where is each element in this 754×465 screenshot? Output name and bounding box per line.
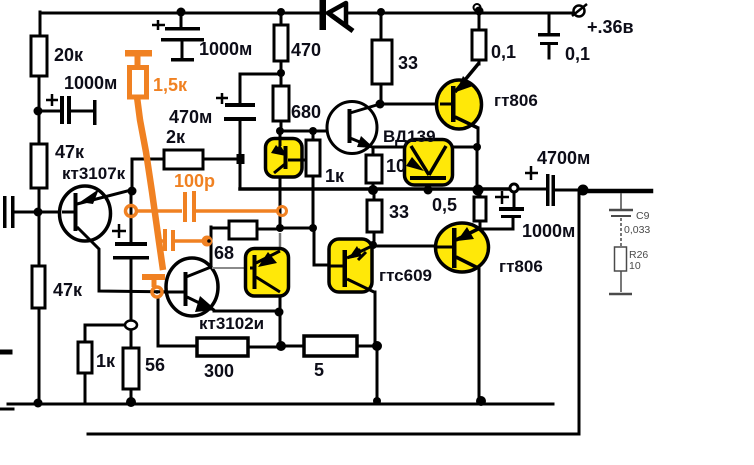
svg-text:33: 33 bbox=[389, 202, 409, 222]
junction rail / R33(1) bbox=[377, 8, 385, 16]
svg-text:гт806: гт806 bbox=[494, 91, 538, 110]
wire bypass cap to end bar bbox=[71, 110, 93, 113]
wire yellow box Q bottom to node C bbox=[279, 177, 282, 228]
wire out cap 1000m top stem bbox=[513, 192, 516, 207]
wire gtc609 top node to 33(2) bbox=[373, 232, 376, 246]
wire R33(1) bottom to node F bbox=[380, 84, 383, 104]
wire gtc609 collector node to gt806(2) base bbox=[377, 245, 437, 248]
resistor 47k (2) bbox=[32, 266, 45, 308]
svg-text:680: 680 bbox=[291, 102, 321, 122]
resistor 68 bbox=[229, 221, 257, 239]
ground rail 1 bbox=[8, 403, 553, 406]
junction R470/R680/cap470m bbox=[277, 69, 285, 77]
svg-text:10: 10 bbox=[386, 156, 406, 176]
plus sign cap 4700m bbox=[525, 166, 538, 180]
svg-text:С9: С9 bbox=[636, 210, 650, 222]
resistor 5 bbox=[304, 336, 357, 356]
wire R0,5 bottom into gt806(2) top bbox=[479, 221, 482, 233]
junction output / R0,5 bbox=[473, 185, 484, 196]
junction output / 4700m right bbox=[578, 185, 589, 196]
capacitor emitter bypass plates bbox=[115, 242, 147, 246]
svg-text:470м: 470м bbox=[169, 107, 212, 127]
wire input cap to base bbox=[14, 211, 74, 214]
svg-text:кт3102и: кт3102и bbox=[199, 314, 264, 333]
svg-text:0,1: 0,1 bbox=[491, 42, 516, 62]
capacitor 4700m plates bbox=[546, 174, 550, 206]
wire cap 4700m to out node bbox=[555, 189, 579, 192]
wire out node to 33(2) top bbox=[373, 190, 376, 200]
wire R5 to node E bbox=[357, 345, 377, 348]
junction square 2k / 470m stem bbox=[237, 154, 245, 164]
svg-text:0,033: 0,033 bbox=[624, 224, 650, 236]
wire node E down to rail bbox=[376, 346, 379, 404]
svg-text:0,5: 0,5 bbox=[432, 195, 457, 215]
svg-text:1,5к: 1,5к bbox=[153, 75, 188, 95]
ring above R0,1 top bbox=[474, 4, 481, 11]
svg-text:+.36в: +.36в bbox=[587, 17, 634, 37]
svg-text:1к: 1к bbox=[96, 351, 116, 371]
junction gtc609 collector node bbox=[369, 241, 377, 249]
wire node to R680 bbox=[280, 74, 283, 86]
junction node C right bbox=[309, 224, 317, 232]
svg-text:10: 10 bbox=[629, 260, 641, 272]
svg-text:1000м: 1000м bbox=[64, 73, 117, 93]
wire 470/680 node to cap 470m bbox=[240, 74, 281, 103]
wire R0,1 bottom to gt806(1) emitter bbox=[478, 60, 481, 64]
svg-text:47к: 47к bbox=[53, 280, 83, 300]
svg-text:56: 56 bbox=[145, 355, 165, 375]
transistor in yellow box Q2 (mid) bbox=[246, 249, 289, 297]
svg-text:47к: 47к bbox=[55, 142, 85, 162]
resistor 33 (1) bbox=[372, 40, 392, 84]
wire 2k left leg down to emitter node bbox=[132, 159, 164, 188]
resistor 1k (1) bbox=[306, 140, 320, 176]
wire node A to bypass cap bbox=[40, 110, 59, 113]
resistor 0,1 bbox=[472, 30, 486, 60]
wire node G down to output node bbox=[476, 147, 479, 190]
wire node C horizontal bbox=[280, 227, 313, 230]
svg-text:гт806: гт806 bbox=[499, 257, 543, 276]
plus sign emitter cap bbox=[112, 224, 126, 238]
junction rail / R56 bbox=[126, 397, 136, 407]
grey base wire kt3102i collector to yellow box Q2 bbox=[212, 267, 250, 269]
svg-text:470: 470 bbox=[291, 40, 321, 60]
wire 47k(2) bottom to ground rail bbox=[38, 308, 41, 404]
wire R1k(2) bottom to rail bbox=[84, 373, 87, 404]
wire node B horizontal to driver base bbox=[280, 130, 348, 133]
orange ring at new base node bbox=[152, 287, 162, 297]
wire node F to gt806(1) base bbox=[381, 103, 451, 106]
resistor 1k (2) bottom-left bbox=[78, 342, 92, 373]
capacitor 470m plates bbox=[225, 103, 255, 107]
load network C9 R26 (faint) bbox=[609, 193, 633, 294]
wire base node down to R300 bbox=[158, 297, 197, 346]
wire node B to R1k(1) bbox=[312, 132, 315, 140]
transistor gt806 (2) yellow circle bbox=[436, 223, 489, 272]
svg-text:0,1: 0,1 bbox=[565, 44, 590, 64]
svg-text:1000м: 1000м bbox=[199, 39, 252, 59]
svg-text:100р: 100р bbox=[174, 171, 215, 191]
junction R300/R5 node D bbox=[276, 341, 286, 351]
wire R68 right to node C bbox=[257, 228, 277, 231]
wire driver emitter node to R10 bbox=[372, 147, 375, 155]
svg-text:1000м: 1000м bbox=[522, 221, 575, 241]
resistor 300 bbox=[197, 338, 248, 356]
wire left drop from rail to R 20k bbox=[39, 12, 42, 38]
wire R300 to node D bbox=[248, 346, 277, 349]
wire R1k(2) top to tap ring bbox=[85, 325, 128, 342]
resistor 470 bbox=[274, 25, 288, 61]
wire output line y=190 bbox=[240, 187, 510, 191]
wire R10 bottom to output line bbox=[372, 183, 375, 190]
wire rail to R470 bbox=[280, 13, 283, 25]
svg-text:20к: 20к bbox=[54, 45, 84, 65]
orange capacitor 100p annotation bbox=[126, 191, 287, 222]
capacitor out 1000m plates bbox=[499, 207, 524, 211]
capacitor input plates bbox=[3, 196, 7, 228]
wire 47k(1) bottom through base node down to 47k(2) bbox=[38, 188, 41, 266]
wire 2k right to 470m stem junction bbox=[203, 158, 240, 161]
transistor gt806 (1) yellow circle bbox=[437, 63, 482, 129]
junction output / VD139 bbox=[424, 186, 433, 195]
diode on rail bbox=[320, 0, 354, 31]
svg-text:ВД139: ВД139 bbox=[383, 127, 436, 146]
wire gt806(1) collector down to node G bbox=[477, 128, 480, 147]
svg-text:4700м: 4700м bbox=[537, 148, 590, 168]
svg-text:68: 68 bbox=[214, 243, 234, 263]
transistor driver VD139 circle bbox=[327, 102, 380, 154]
orange capacitor annotation near 68 bbox=[159, 229, 213, 251]
resistor 20k bbox=[31, 36, 47, 76]
wire cap 0,1(2) bottom stem bbox=[548, 45, 551, 58]
transistor gtc609 yellow box bbox=[329, 239, 374, 292]
junction R5/node E bbox=[372, 341, 382, 351]
wire R680 to node B bbox=[280, 121, 283, 132]
wire cap 0,1(2) top stem bbox=[548, 13, 551, 33]
resistor 0,5 bbox=[474, 197, 486, 221]
wire rail to R0,1 bbox=[478, 13, 481, 30]
svg-text:300: 300 bbox=[204, 361, 234, 381]
junction rail / gt806(2) collector bbox=[476, 396, 486, 406]
wire emitter node down through cap to tap ring bbox=[130, 190, 133, 348]
junction rail / 47k bbox=[34, 399, 43, 408]
junction rail / R470 bbox=[277, 8, 285, 16]
diode VD139 yellow box bbox=[405, 140, 453, 186]
junction emitter node kt3107k bbox=[128, 187, 137, 196]
plus sign cap 1000m top bbox=[152, 20, 165, 30]
transistor kt3107k bbox=[60, 186, 185, 292]
wire kt3102i emitter run bbox=[214, 310, 277, 313]
wire y=147 node run to gt806(1) collector bbox=[373, 146, 477, 149]
junction node B right bbox=[309, 127, 317, 135]
junction node A bbox=[34, 107, 43, 116]
capacitor 0,1(2) plates bbox=[538, 33, 560, 37]
plus sign cap out 1000m bbox=[495, 191, 509, 204]
wire gtc609 emitter down to node E bbox=[374, 292, 377, 346]
wire node D to R5 bbox=[281, 345, 304, 348]
capacitor bypass 1000m plates bbox=[60, 96, 64, 124]
svg-text:33: 33 bbox=[398, 53, 418, 73]
wire output riser to rail 2 bbox=[578, 191, 581, 434]
capacitor 1000m top plates bbox=[165, 27, 200, 31]
wire thick output stub right bbox=[582, 189, 651, 194]
wire output node to R0,5 bbox=[479, 190, 482, 197]
junction kt3102i emitter ring bbox=[275, 308, 284, 317]
svg-text:2к: 2к bbox=[166, 127, 186, 147]
wire cap 1000m inner stem bbox=[181, 41, 184, 58]
wire gt806(2) collector down to rail bbox=[478, 268, 481, 403]
grey stem node C to yellow box Q2 bbox=[279, 233, 282, 249]
wire output ring to cap 4700m bbox=[518, 188, 546, 191]
resistor 10 bbox=[366, 155, 382, 183]
junction node C left bbox=[276, 224, 284, 232]
wire 20k bottom to node A bbox=[38, 76, 41, 146]
orange resistor 1,5k annotation bbox=[125, 50, 165, 287]
wire out cap 1000m bottom leg bbox=[482, 218, 513, 229]
resistor 56 bbox=[123, 348, 139, 389]
transistor in yellow box Q1 (top) bbox=[266, 133, 307, 177]
wire R68 left leg bbox=[211, 227, 229, 267]
terminal +36v ring bbox=[572, 4, 587, 17]
svg-text:1к: 1к bbox=[325, 166, 345, 186]
wire top +36v rail bbox=[40, 12, 573, 15]
resistor 680 bbox=[273, 86, 289, 121]
junction rail / cap 1000m bbox=[177, 8, 186, 17]
junction rail / node E drop bbox=[373, 397, 381, 405]
tap ring on 1k/56 node bbox=[125, 321, 137, 330]
svg-text:5: 5 bbox=[314, 360, 324, 380]
wire rail to R33(1) bbox=[380, 13, 383, 40]
wire kt3102i emitter node down to R300/R5 node bbox=[279, 296, 282, 346]
resistor 33 (2) bbox=[367, 200, 382, 232]
junction node G bbox=[473, 143, 481, 151]
resistor 2k bbox=[164, 150, 203, 169]
output ring before 4700m bbox=[510, 184, 518, 192]
plus sign node A cap bbox=[46, 94, 58, 106]
wire R1k(1) bottom to node C bbox=[312, 176, 315, 228]
wire rail to cap 1000m top bbox=[180, 13, 183, 27]
transistor kt3102i bbox=[160, 258, 218, 316]
svg-text:кт3107к: кт3107к bbox=[62, 164, 126, 183]
wire VD139 box bottom stem bbox=[427, 180, 430, 190]
junction base node kt3107k bbox=[34, 208, 43, 217]
wire R56 bottom to rail bbox=[130, 389, 133, 403]
wire R470 to node bbox=[280, 61, 283, 74]
junction node B left bbox=[276, 127, 284, 135]
junction output / R10 bbox=[368, 185, 378, 195]
resistor 47k (1) bbox=[31, 144, 47, 188]
ground rail 2 (return) bbox=[88, 433, 579, 436]
terminal dash left mid bbox=[0, 350, 10, 355]
plus sign cap 470m bbox=[216, 93, 228, 104]
wire node C down to gtc609 base bbox=[314, 228, 330, 265]
junction rail / R0,1 with ring bbox=[475, 7, 484, 16]
wire cap 470m bottom down to output line corner bbox=[239, 121, 242, 189]
terminal dash bottom left bbox=[0, 408, 13, 411]
svg-text:гтс609: гтс609 bbox=[379, 266, 432, 285]
junction node F bbox=[376, 100, 385, 109]
